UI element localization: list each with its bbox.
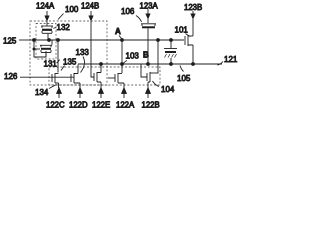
terminal arrow 123B <box>184 3 202 19</box>
svg-text:123B: 123B <box>184 3 202 12</box>
svg-text:133: 133 <box>76 48 90 57</box>
junction dot output node <box>191 62 195 66</box>
label 105 with leader <box>177 66 191 84</box>
junction dot 132 source <box>47 38 51 42</box>
wire 124B clock line down to T3 gate <box>91 21 94 77</box>
label 133 with leader <box>76 48 90 73</box>
transistor 104 (T5) <box>141 65 158 89</box>
svg-text:122E: 122E <box>92 100 110 109</box>
wire gate bus vertical from 125 <box>34 40 46 57</box>
svg-text:121: 121 <box>224 55 238 64</box>
terminal arrow 122D <box>69 87 88 109</box>
label 134 with leader <box>35 85 57 98</box>
junction dot T3 drain on rail <box>99 62 103 66</box>
transistor T3 (clocked pull-down) <box>94 65 101 89</box>
junction dot node B <box>156 38 160 42</box>
dashed box 100 <box>30 21 107 85</box>
wire 126 input with label <box>4 72 74 81</box>
svg-text:131: 131 <box>44 59 58 68</box>
label 135 with leader <box>61 58 77 71</box>
label 132 with leader <box>54 23 71 32</box>
svg-text:B: B <box>143 51 149 60</box>
svg-text:100: 100 <box>65 5 79 14</box>
svg-text:105: 105 <box>177 74 191 83</box>
svg-text:125: 125 <box>3 37 17 46</box>
transistor T2 (pull-down pair) <box>71 65 80 89</box>
dashed box 134 <box>49 67 160 85</box>
wire 103 node A vertical <box>121 40 123 73</box>
transistor 135 (T1 on 126 line) <box>52 73 59 88</box>
terminal arrow 124B <box>81 2 99 21</box>
terminal arrow 122C <box>46 87 65 109</box>
label 100 with leader <box>58 5 79 20</box>
svg-text:135: 135 <box>63 58 77 67</box>
terminal arrow 122A <box>116 87 135 109</box>
junction dot A on rail <box>120 62 124 66</box>
svg-text:122C: 122C <box>46 100 65 109</box>
node A label <box>115 27 122 39</box>
node B label <box>143 51 149 60</box>
terminal arrow 123A <box>140 2 159 19</box>
svg-text:124B: 124B <box>81 2 99 11</box>
svg-text:104: 104 <box>161 85 175 94</box>
svg-text:122D: 122D <box>69 100 88 109</box>
wire T1 drain vertical <box>57 40 59 73</box>
junction dot 123A line on rail <box>146 62 150 66</box>
terminal arrow 122B <box>142 87 160 109</box>
label 104 with leader <box>153 81 175 94</box>
junction dot T1 drain <box>56 38 60 42</box>
wire output 121 <box>193 55 238 65</box>
label 106 with leader <box>121 7 142 22</box>
junction dot cap 105 bottom <box>169 62 173 66</box>
svg-text:126: 126 <box>4 72 18 81</box>
wire main row node line <box>34 39 184 41</box>
svg-text:134: 134 <box>35 88 49 97</box>
terminal arrow 124A <box>36 2 55 21</box>
label 131 <box>44 59 60 68</box>
label 103 with leader <box>123 52 140 65</box>
label 101 with leader <box>175 25 191 36</box>
svg-text:101: 101 <box>175 25 189 34</box>
wire 125 input with label <box>3 37 34 46</box>
mid rail (output bus) <box>78 63 193 65</box>
wire node B vertical to T5 <box>157 40 159 74</box>
junction dot node A <box>120 38 124 42</box>
capacitor 106 <box>141 19 156 64</box>
svg-text:122B: 122B <box>142 100 160 109</box>
transistor 101 (output pull-up) <box>185 19 193 64</box>
transistor T4 (node A pull-down) <box>108 73 124 88</box>
transistor 132 <box>41 21 53 40</box>
junction dot 125 node <box>32 38 36 50</box>
terminal arrow 122E <box>92 87 110 109</box>
dashed box 131 <box>36 24 56 60</box>
svg-text:A: A <box>115 27 121 36</box>
svg-text:123A: 123A <box>140 2 159 11</box>
junction dot cap 105 top <box>169 38 173 42</box>
transistor 131-lower <box>40 40 52 57</box>
svg-text:124A: 124A <box>36 2 55 11</box>
svg-text:122A: 122A <box>116 100 135 109</box>
svg-text:106: 106 <box>121 7 135 16</box>
svg-text:132: 132 <box>57 23 71 32</box>
capacitor 105 <box>164 40 177 64</box>
svg-text:103: 103 <box>126 52 140 61</box>
